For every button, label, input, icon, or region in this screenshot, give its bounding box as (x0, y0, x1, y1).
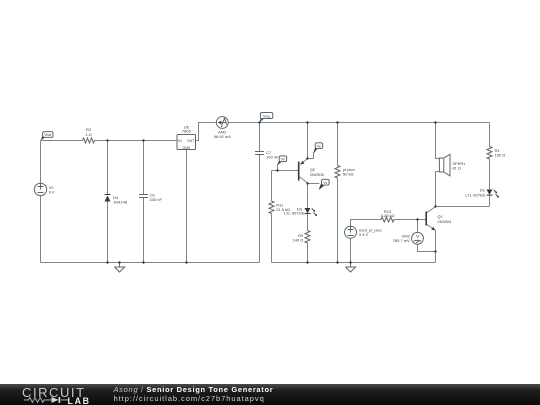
resistor R13 (381, 217, 394, 222)
junction dot bottom rail GND1 (118, 261, 120, 263)
flag tail Vb (278, 160, 282, 165)
footer url (114, 394, 265, 403)
junction dot top rail pi-pico (336, 121, 338, 123)
LED D3 light arrows (312, 208, 317, 215)
resistor pi-pico (335, 166, 340, 179)
speaker SPKR1 (439, 158, 443, 172)
flag tail Vreg (260, 117, 264, 123)
wire VM2 bottom (418, 244, 436, 251)
flag Vbat box (43, 132, 53, 138)
wire D3 to R9 (307, 214, 309, 231)
flag tail Ve (314, 148, 318, 154)
LED D1 light arrows (494, 190, 499, 197)
svg-text:Ve: Ve (317, 144, 321, 148)
svg-text:50 kΩ: 50 kΩ (343, 171, 354, 176)
ammeter arrowhead (218, 121, 222, 125)
svg-text:GND: GND (183, 146, 191, 150)
svg-text:150 Ω: 150 Ω (495, 153, 506, 158)
svg-text:780.7 mV: 780.7 mV (393, 238, 410, 243)
flag tail Vc (319, 184, 324, 190)
wire Q1 collector diagonal (426, 207, 435, 214)
flag Vreg box (260, 113, 273, 119)
flag Vc box (322, 179, 330, 185)
wire collector rail y=206.5 (436, 195, 490, 207)
wire Q1 emitter diagonal (426, 224, 435, 231)
transistor Q1 base bar (425, 212, 427, 226)
wire main rail y=140.5 (41, 140, 178, 142)
wire R13 to Q1 base (394, 219, 426, 221)
svg-text:81 Ω: 81 Ω (452, 166, 461, 171)
svg-text:LTL-307GE: LTL-307GE (284, 211, 305, 216)
junction dot bottom rail R9 (306, 261, 308, 263)
junction dot bottom rail U6 (185, 261, 187, 263)
wire U6 GND (186, 150, 188, 263)
svg-text:Vbat: Vbat (44, 133, 51, 137)
svg-text:Vb: Vb (281, 158, 285, 162)
svg-text:96.92 mA: 96.92 mA (214, 134, 231, 139)
svg-text:2N2906: 2N2906 (310, 172, 325, 177)
wire VM2 top (417, 220, 419, 233)
source Vout_pi_pico (345, 226, 357, 238)
wire speaker branch (436, 123, 440, 207)
junction dot bottom rail pi-pico (336, 261, 338, 263)
svg-text:Vreg: Vreg (263, 114, 270, 118)
resistor R9 (305, 231, 310, 244)
footer title (114, 385, 274, 394)
svg-text:1N4148: 1N4148 (113, 200, 128, 205)
capacitor C7 plates (255, 152, 264, 155)
junction dot top rail C7/Vreg (258, 121, 260, 123)
svg-text:100 nF: 100 nF (266, 155, 279, 160)
wire D4 branch (107, 141, 109, 263)
junction dot top rail speaker (434, 121, 436, 123)
wire bottom rail right (272, 262, 436, 264)
junction dot main rail C6 (142, 139, 144, 141)
junction dot Q1 base (416, 218, 418, 220)
wire Q1 emitter down (435, 231, 437, 263)
junction dot top rail Q2 (306, 121, 308, 123)
wire Q2 base (272, 170, 299, 172)
LED D3 (305, 208, 311, 213)
svg-text:2N3904: 2N3904 (437, 219, 452, 224)
footer logo LAB (68, 396, 91, 405)
flag Ve box (315, 143, 323, 149)
source V2 (34, 183, 46, 195)
wire Vc flag stub (308, 183, 320, 185)
junction dot Vc attach (306, 182, 308, 184)
svg-text:330 nF: 330 nF (150, 197, 163, 202)
junction dot Ve attach (306, 157, 308, 159)
footer logo emblem resistor-diode (22, 396, 72, 404)
junction dot collector rail (434, 205, 436, 207)
svg-text:1 Ω: 1 Ω (85, 132, 91, 137)
flag tail Vbat (41, 135, 46, 140)
wire C7 branch (259, 123, 261, 263)
svg-text:7805: 7805 (182, 128, 192, 133)
svg-text:IN: IN (178, 139, 182, 143)
footer logo CIRCUIT (22, 385, 86, 400)
ground GND2 (345, 263, 355, 273)
junction dot bottom rail D4 (106, 261, 108, 263)
wire bottom rail left (41, 262, 260, 264)
wire Vout source top (351, 220, 382, 227)
svg-text:9 V: 9 V (49, 189, 55, 194)
ammeter AM2 (216, 117, 228, 129)
wire OUT stub up to top rail (196, 123, 217, 141)
wire top rail y=122.5 (228, 122, 489, 124)
wire Q2 collector (299, 177, 308, 208)
junction dot Vb attach (276, 169, 278, 171)
resistor R2 (83, 138, 95, 143)
wire left branch to V2 (40, 141, 42, 263)
diode D4 (105, 196, 111, 202)
footer bar (0, 384, 540, 405)
svg-text:3.3 V: 3.3 V (359, 232, 369, 237)
wire C6 branch (143, 141, 145, 263)
wire pi-pico branch (337, 123, 339, 263)
junction dot bottom rail C6 (142, 261, 144, 263)
svg-text:OUT: OUT (187, 139, 194, 143)
transistor Q2 base bar (298, 162, 300, 181)
wire R9 bottom (307, 243, 309, 263)
ground GND1 (114, 263, 124, 273)
svg-text:140 Ω: 140 Ω (293, 238, 304, 243)
svg-text:LTL-307EE: LTL-307EE (465, 192, 485, 197)
regulator U6 box (177, 135, 196, 150)
wire Vb flag stub (278, 162, 280, 171)
junction dot VM2 bottom (434, 250, 436, 252)
wire Q2 emitter branch (300, 123, 308, 165)
junction dot bottom rail GND2 (349, 261, 351, 263)
wire R1 D1 branch (489, 123, 491, 190)
svg-text:3.28 kΩ: 3.28 kΩ (381, 213, 395, 218)
svg-text:Vc: Vc (323, 181, 327, 185)
transistor Q1 emitter arrow (431, 227, 435, 230)
junction dot main rail D4 (106, 139, 108, 141)
svg-text:V: V (416, 234, 420, 239)
LED D1 (487, 190, 493, 195)
wire Vout source bottom (350, 238, 352, 262)
flag Vb box (279, 156, 287, 162)
resistor R1 (487, 147, 492, 160)
wire R11 branch (271, 171, 273, 263)
transistor Q2 emitter arrow (301, 161, 305, 165)
resistor R11 (269, 201, 274, 214)
voltmeter VM2 (412, 232, 424, 244)
wire Ve flag stub (308, 150, 316, 159)
capacitor C6 plates (139, 195, 148, 198)
